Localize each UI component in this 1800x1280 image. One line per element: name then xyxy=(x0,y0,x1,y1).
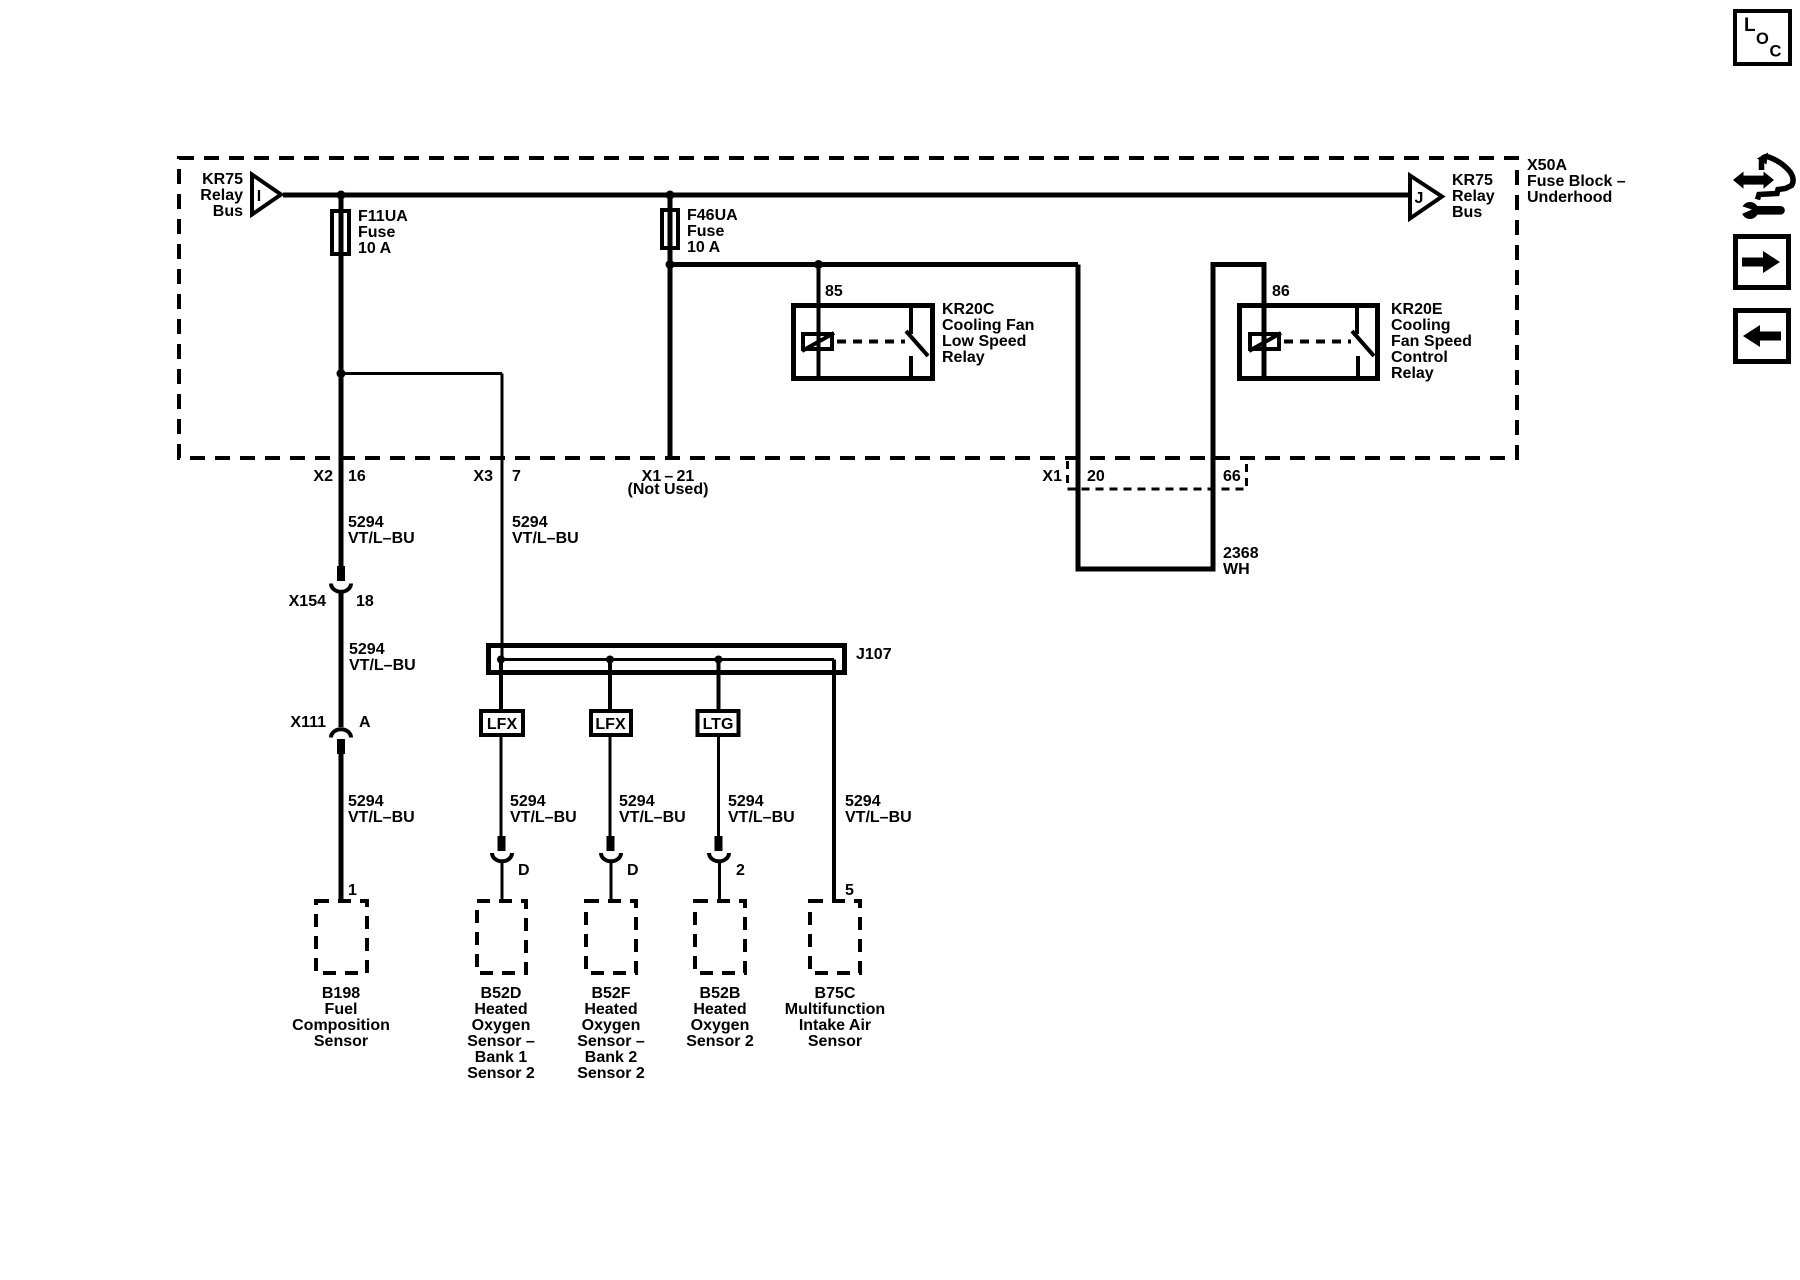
svg-text:X154: X154 xyxy=(289,593,326,610)
relay link dashed xyxy=(837,340,905,344)
svg-text:F46UA: F46UA xyxy=(687,207,738,224)
svg-text:2: 2 xyxy=(736,862,745,879)
wire: connector to B52F xyxy=(610,861,613,899)
svg-text:VT/L–BU: VT/L–BU xyxy=(349,657,416,674)
svg-text:Control: Control xyxy=(1391,349,1448,366)
svg-text:Sensor 2: Sensor 2 xyxy=(577,1065,645,1082)
wire label 5294 VT/L-BU (B52D) xyxy=(510,793,577,826)
svg-text:Composition: Composition xyxy=(292,1017,390,1034)
svg-text:Oxygen: Oxygen xyxy=(582,1017,641,1034)
svg-text:C: C xyxy=(1770,43,1782,61)
fuse F11UA 10A xyxy=(332,208,408,257)
svg-text:Fuse Block –: Fuse Block – xyxy=(1527,173,1626,190)
svg-text:B52F: B52F xyxy=(591,985,630,1002)
connector X111 inline xyxy=(290,714,371,754)
svg-text:F11UA: F11UA xyxy=(358,208,408,225)
option box LFX 1 xyxy=(481,711,523,735)
svg-text:18: 18 xyxy=(356,593,374,610)
junction at pin 85 drop xyxy=(814,260,823,269)
svg-text:Bus: Bus xyxy=(1452,204,1482,221)
svg-text:B198: B198 xyxy=(322,985,360,1002)
option box LFX 2 xyxy=(591,711,631,735)
connector exit labels X1-21 Not Used xyxy=(628,468,709,498)
wire: LFX2 to connector D xyxy=(609,737,612,837)
svg-text:X2: X2 xyxy=(313,468,333,485)
svg-text:B52B: B52B xyxy=(700,985,741,1002)
label KR20C xyxy=(942,301,1034,366)
label X50A Fuse Block - Underhood xyxy=(1527,157,1626,206)
svg-text:16: 16 xyxy=(348,468,366,485)
wire: X154 to X111 xyxy=(339,591,344,727)
junction on bus at F46UA xyxy=(666,191,675,200)
svg-text:J107: J107 xyxy=(856,646,892,663)
switch KR20C xyxy=(909,305,913,334)
wire: X3-7 branch horizontal xyxy=(341,372,502,375)
component B52F dashed box xyxy=(577,901,645,1082)
svg-text:1: 1 xyxy=(348,882,357,899)
svg-text:5294: 5294 xyxy=(349,641,385,658)
connector X1 dashed sub-box xyxy=(1068,461,1247,489)
svg-text:KR75: KR75 xyxy=(1452,172,1493,189)
wire: J107 right branch to B75C xyxy=(832,660,836,900)
svg-text:86: 86 xyxy=(1272,283,1290,300)
icon back arrow box xyxy=(1736,311,1789,362)
svg-text:Oxygen: Oxygen xyxy=(691,1017,750,1034)
component B75C dashed box xyxy=(785,901,885,1050)
svg-text:LTG: LTG xyxy=(703,716,734,733)
svg-text:10 A: 10 A xyxy=(358,240,392,257)
wire label 5294 VT/L-BU (middle) xyxy=(349,641,416,674)
wire label 2368 WH xyxy=(1223,545,1259,578)
splice junction J107-1 xyxy=(497,656,505,664)
svg-text:X111: X111 xyxy=(290,714,326,731)
svg-text:B75C: B75C xyxy=(815,985,856,1002)
svg-text:Sensor 2: Sensor 2 xyxy=(686,1033,754,1050)
wire: J107 internal bus xyxy=(501,658,834,661)
coil KR20E xyxy=(1250,334,1279,349)
svg-text:Relay: Relay xyxy=(1452,188,1495,205)
icon diagnostic tool xyxy=(1733,153,1793,220)
svg-text:Heated: Heated xyxy=(474,1001,527,1018)
svg-text:O: O xyxy=(1756,30,1769,48)
svg-text:WH: WH xyxy=(1223,561,1250,578)
icon next arrow box xyxy=(1736,237,1789,288)
wire: LTG to connector 2 xyxy=(717,737,720,837)
svg-text:I: I xyxy=(257,188,261,205)
svg-text:5294: 5294 xyxy=(619,793,655,810)
svg-text:Heated: Heated xyxy=(693,1001,746,1018)
junction at F11UA vertical xyxy=(337,369,346,378)
svg-text:Sensor –: Sensor – xyxy=(467,1033,535,1050)
svg-text:85: 85 xyxy=(825,283,843,300)
wire label 5294 VT/L-BU (B198) xyxy=(348,793,415,826)
component B52B dashed box xyxy=(686,901,754,1050)
fuse block X50A dashed outline xyxy=(179,158,1517,458)
svg-text:7: 7 xyxy=(512,468,521,485)
svg-text:Relay: Relay xyxy=(1391,365,1434,382)
wire label 5294 VT/L-BU (B52F) xyxy=(619,793,686,826)
component B52D dashed box xyxy=(467,901,535,1082)
svg-text:Fan Speed: Fan Speed xyxy=(1391,333,1472,350)
wire label 5294 VT/L-BU (B52B) xyxy=(728,793,795,826)
label KR20E xyxy=(1391,301,1472,382)
svg-text:KR20C: KR20C xyxy=(942,301,995,318)
svg-text:Oxygen: Oxygen xyxy=(472,1017,531,1034)
splice junction J107-3 xyxy=(715,656,723,664)
svg-text:Sensor: Sensor xyxy=(314,1033,368,1050)
svg-text:A: A xyxy=(359,714,371,731)
connector D (B52F) xyxy=(601,836,639,879)
wire: F46UA branch vertical xyxy=(668,195,673,458)
svg-text:VT/L–BU: VT/L–BU xyxy=(510,809,577,826)
svg-text:X3: X3 xyxy=(473,468,493,485)
svg-text:D: D xyxy=(518,862,530,879)
svg-text:LFX: LFX xyxy=(487,716,518,733)
wire: X111 to B198 xyxy=(339,754,344,899)
svg-text:L: L xyxy=(1744,15,1756,36)
svg-text:X1: X1 xyxy=(1042,468,1062,485)
svg-text:LFX: LFX xyxy=(595,716,626,733)
wire label 5294 VT/L-BU (X2-16) xyxy=(348,514,415,547)
svg-text:D: D xyxy=(627,862,639,879)
wire: LFX1 to connector D xyxy=(500,737,503,837)
svg-text:5294: 5294 xyxy=(348,793,384,810)
svg-text:Bank 1: Bank 1 xyxy=(475,1049,528,1066)
junction at F46UA vertical xyxy=(666,260,675,269)
svg-text:VT/L–BU: VT/L–BU xyxy=(512,530,579,547)
coil KR20C xyxy=(803,334,832,349)
wire label 5294 VT/L-BU (B75C) xyxy=(845,793,912,826)
svg-text:Cooling: Cooling xyxy=(1391,317,1451,334)
svg-text:Bus: Bus xyxy=(213,203,243,220)
svg-text:Intake Air: Intake Air xyxy=(799,1017,871,1034)
component B198 dashed box xyxy=(292,901,390,1050)
svg-text:VT/L–BU: VT/L–BU xyxy=(845,809,912,826)
svg-text:VT/L–BU: VT/L–BU xyxy=(348,809,415,826)
wire label 5294 VT/L-BU (X3-7) xyxy=(512,514,579,547)
svg-text:5294: 5294 xyxy=(512,514,548,531)
switch KR20E xyxy=(1355,305,1359,334)
connector X154 inline xyxy=(289,566,374,610)
svg-text:VT/L–BU: VT/L–BU xyxy=(619,809,686,826)
relay KR20E box xyxy=(1240,305,1378,379)
wire: X3-7 vertical to J107 xyxy=(501,374,504,661)
splice junction J107-2 xyxy=(606,656,614,664)
relay link dashed xyxy=(1284,340,1351,344)
connector 2 (B52B) xyxy=(709,836,745,879)
svg-text:20: 20 xyxy=(1087,468,1105,485)
svg-text:Sensor –: Sensor – xyxy=(577,1033,645,1050)
node I: KR75 Relay Bus input triangle xyxy=(200,171,281,220)
svg-text:Low Speed: Low Speed xyxy=(942,333,1026,350)
svg-text:Fuse: Fuse xyxy=(358,224,395,241)
connector exit labels X3 7 xyxy=(473,468,521,485)
svg-text:B52D: B52D xyxy=(481,985,522,1002)
icon LOC box xyxy=(1735,11,1790,64)
splice pack J107 box xyxy=(489,646,892,673)
svg-text:Multifunction: Multifunction xyxy=(785,1001,885,1018)
svg-text:KR75: KR75 xyxy=(202,171,243,188)
svg-text:Cooling Fan: Cooling Fan xyxy=(942,317,1034,334)
svg-text:(Not Used): (Not Used) xyxy=(628,481,709,498)
svg-text:Relay: Relay xyxy=(942,349,985,366)
connector exit labels X2 16 xyxy=(313,468,365,485)
wire: main relay bus xyxy=(283,193,1410,198)
svg-text:10 A: 10 A xyxy=(687,239,721,256)
svg-text:Fuel: Fuel xyxy=(325,1001,358,1018)
relay KR20C box xyxy=(794,305,933,379)
svg-text:Sensor 2: Sensor 2 xyxy=(467,1065,535,1082)
svg-text:VT/L–BU: VT/L–BU xyxy=(348,530,415,547)
wire: F11UA branch vertical xyxy=(339,195,344,567)
svg-text:Underhood: Underhood xyxy=(1527,189,1612,206)
svg-text:Bank 2: Bank 2 xyxy=(585,1049,638,1066)
node J: KR75 Relay Bus output triangle xyxy=(1410,172,1495,221)
fuse F46UA 10A xyxy=(662,207,738,256)
wire: 2368 WH circuit U-path xyxy=(1078,265,1264,570)
svg-text:Relay: Relay xyxy=(200,187,243,204)
option box LTG xyxy=(698,711,739,735)
connector exit labels X1 20 66 xyxy=(1042,468,1240,485)
svg-text:Sensor: Sensor xyxy=(808,1033,862,1050)
wire: J107 drop 1 xyxy=(499,660,503,710)
wire: connector to B52D xyxy=(501,861,504,899)
wire: KR20C pin 85 drop xyxy=(817,265,821,379)
wire: J107 drop 2 xyxy=(608,660,612,710)
wire: connector to B52B xyxy=(718,861,721,899)
svg-text:KR20E: KR20E xyxy=(1391,301,1443,318)
svg-text:5294: 5294 xyxy=(510,793,546,810)
junction on bus at F11UA xyxy=(337,191,346,200)
svg-text:5294: 5294 xyxy=(348,514,384,531)
svg-text:X50A: X50A xyxy=(1527,157,1567,174)
svg-text:J: J xyxy=(1415,190,1424,207)
svg-text:Heated: Heated xyxy=(584,1001,637,1018)
svg-text:66: 66 xyxy=(1223,468,1241,485)
wire: relay feed horizontal from F46UA xyxy=(670,262,1078,267)
svg-text:5: 5 xyxy=(845,882,854,899)
svg-text:5294: 5294 xyxy=(845,793,881,810)
svg-text:VT/L–BU: VT/L–BU xyxy=(728,809,795,826)
svg-text:2368: 2368 xyxy=(1223,545,1259,562)
wire: J107 drop 3 xyxy=(717,660,721,710)
connector D (B52D) xyxy=(492,836,530,879)
svg-text:5294: 5294 xyxy=(728,793,764,810)
svg-text:Fuse: Fuse xyxy=(687,223,724,240)
